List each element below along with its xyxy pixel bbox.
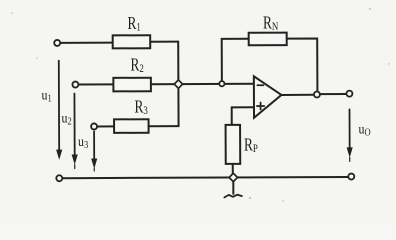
wire RP to ground rail [232, 164, 234, 173]
wire R3 to bus [149, 125, 179, 127]
resistor R3 [114, 119, 149, 133]
wire R2 to junction [151, 83, 178, 85]
wire node to output terminal [320, 93, 346, 95]
wire T2 to R2 [78, 83, 113, 85]
resistor RP [226, 125, 241, 164]
junction ground rail (diamond) [229, 173, 237, 181]
node output junction [314, 91, 320, 97]
wire T3 to R3 [97, 125, 114, 127]
resistor R2 [113, 78, 151, 92]
junction summing node (diamond) [174, 80, 182, 88]
wire ground stub [232, 182, 234, 194]
terminal bottom right [348, 174, 354, 180]
terminal bottom left [56, 175, 62, 181]
terminal input 2 [72, 82, 78, 88]
resistor RN [249, 33, 287, 46]
terminal input 1 [54, 40, 60, 46]
wire RN right branch [287, 38, 318, 91]
wire junction to op-amp inverting input [178, 83, 253, 85]
terminal input 3 [91, 123, 97, 129]
voltage arrow u3 [92, 131, 97, 171]
ground [224, 195, 242, 198]
wire bottom rail [62, 177, 348, 178]
op-amp minus sign [257, 84, 263, 86]
voltage arrow u1 [56, 61, 61, 159]
op-amp U1 [254, 76, 282, 118]
resistor R1 [113, 35, 151, 48]
op-amp plus sign [257, 103, 264, 110]
node RN tap [219, 81, 224, 86]
terminal output [346, 91, 352, 97]
wire RN left branch [222, 39, 249, 82]
voltage arrow uo [347, 109, 352, 161]
wire T1 to R1 [60, 42, 112, 44]
wire op-amp output to node [281, 94, 313, 96]
wire R1 to bus [150, 41, 178, 43]
wire bus vertical [177, 42, 179, 126]
wire non-inverting input to RP [232, 107, 254, 125]
voltage arrow u2 [72, 94, 77, 169]
